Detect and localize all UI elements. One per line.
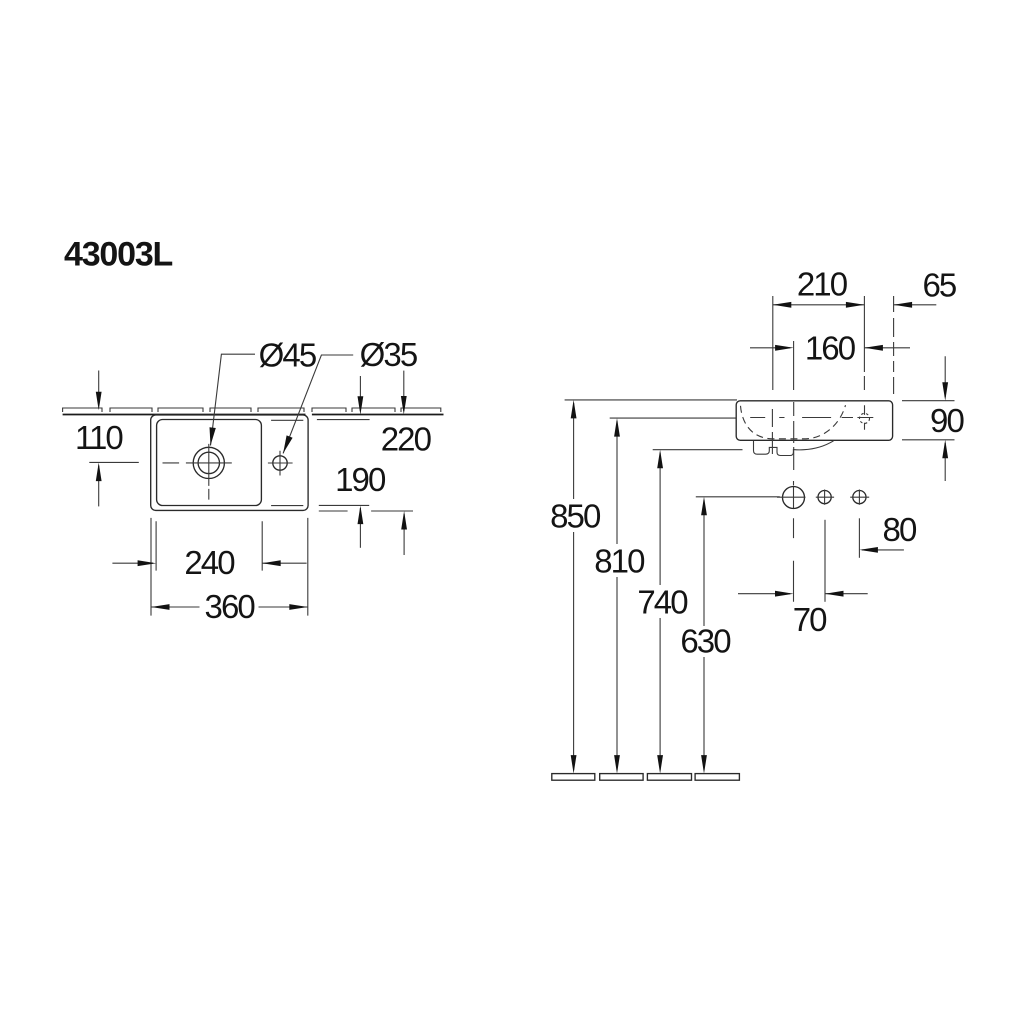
svg-text:80: 80 [883, 511, 917, 548]
dim 210 [773, 304, 865, 306]
dim 220 bottom ext line [319, 510, 413, 512]
bowl inner rect (plan) [157, 420, 262, 506]
svg-text:90: 90 [930, 402, 964, 439]
basin outer rect (plan) [151, 415, 308, 510]
svg-text:630: 630 [680, 623, 731, 660]
dim 240 [112, 562, 306, 564]
svg-text:160: 160 [805, 330, 856, 367]
drain centerlines [163, 444, 232, 500]
dim 80 [862, 549, 904, 551]
svg-text:240: 240 [184, 544, 235, 581]
fixing hole right front [853, 491, 866, 504]
drain hole front [783, 487, 805, 509]
wall line [63, 414, 444, 416]
leader D35 [283, 355, 353, 453]
dim 90 ext lines [902, 401, 955, 440]
dim 70 [738, 593, 868, 595]
dim 160 [750, 347, 910, 349]
dim 740 [659, 453, 661, 770]
ext v 894 dashed [893, 296, 895, 394]
dim 190 arrow top [359, 376, 361, 411]
ext 810 [610, 417, 736, 419]
dim 810 [616, 421, 618, 770]
svg-text:70: 70 [793, 601, 827, 638]
drain hole D45 (plan) [193, 447, 224, 478]
dim 110 arrow bottom [98, 466, 100, 507]
hidden bowl curve [741, 405, 846, 439]
ext v 864 [863, 296, 865, 390]
dim 190 bottom ext line [319, 504, 369, 506]
svg-text:740: 740 [637, 584, 688, 621]
tap hole D35 (plan) [273, 456, 287, 470]
dim 630 [703, 500, 705, 770]
svg-text:360: 360 [205, 588, 256, 625]
dim 190 arrow bottom [359, 508, 361, 548]
dim 65 [894, 304, 937, 306]
dim 110 ext line [89, 461, 139, 463]
dim 850 [573, 403, 575, 770]
deck edge lines (plan) [271, 420, 303, 505]
svg-text:210: 210 [797, 265, 848, 302]
svg-text:850: 850 [550, 498, 601, 535]
ext v mid hole [824, 520, 826, 602]
tap hole centerlines [268, 451, 293, 476]
basin front outline [736, 401, 892, 441]
svg-text:220: 220 [381, 421, 432, 458]
floor planks [552, 774, 740, 781]
svg-text:43003L: 43003L [64, 236, 173, 274]
hidden tap hole cross (front) [864, 405, 866, 430]
svg-text:110: 110 [75, 419, 123, 456]
dim 190 top ext line [317, 419, 370, 421]
dim 110 arrow top [98, 371, 100, 406]
ext 630 [696, 496, 780, 498]
dim 360 [151, 606, 308, 608]
centerline v basin left (front) [771, 296, 773, 454]
svg-text:Ø35: Ø35 [360, 336, 417, 373]
dim 90 line arrows [944, 356, 946, 481]
ext 740 [653, 449, 743, 451]
svg-text:810: 810 [594, 543, 645, 580]
svg-text:Ø45: Ø45 [259, 337, 316, 374]
svg-text:190: 190 [335, 461, 386, 498]
dim 220 arrow top [403, 371, 405, 411]
fixing hole mid front [818, 491, 831, 504]
leader D45 [211, 354, 256, 445]
ext lines below basin (plan) [151, 518, 308, 616]
wall segments top (plan view) [63, 408, 441, 412]
centerline horizontal (front) [750, 417, 873, 419]
ext v right hole [858, 518, 860, 558]
trap outline below basin [754, 441, 834, 456]
centerline v drain (front) [793, 341, 795, 602]
hole centerlines front [777, 490, 869, 505]
dim 220 arrow bottom [403, 514, 405, 555]
svg-text:65: 65 [922, 267, 955, 304]
ext 850 top [565, 399, 737, 401]
